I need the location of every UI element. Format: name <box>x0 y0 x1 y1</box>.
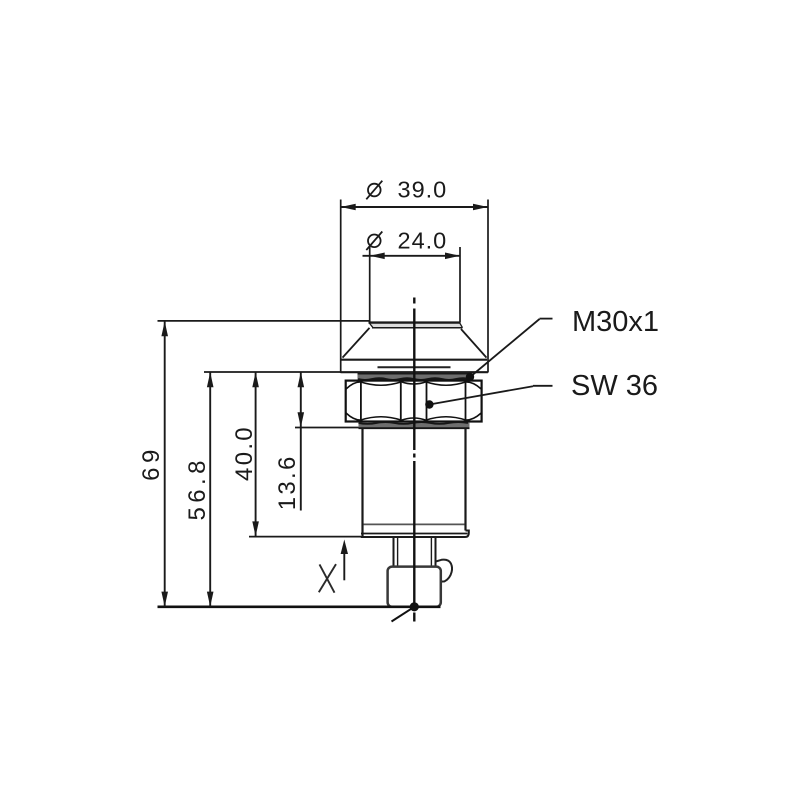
svg-text:SW 36: SW 36 <box>571 370 658 402</box>
svg-text:56.8: 56.8 <box>184 456 211 520</box>
svg-text:39.0: 39.0 <box>398 176 448 202</box>
svg-text:24.0: 24.0 <box>398 228 448 254</box>
svg-text:69: 69 <box>138 445 165 481</box>
svg-text:13.6: 13.6 <box>274 454 301 510</box>
svg-text:40.0: 40.0 <box>231 425 258 481</box>
svg-text:M30x1: M30x1 <box>572 306 659 338</box>
